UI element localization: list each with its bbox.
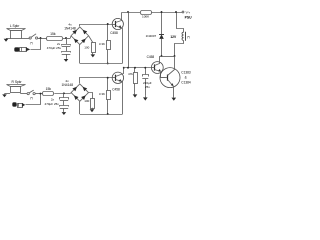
svg-text:12V: 12V xyxy=(170,35,177,39)
svg-text:25v: 25v xyxy=(145,85,150,89)
wire (rail feed down) xyxy=(128,12,130,68)
jack plug L input xyxy=(15,48,20,52)
wire (summing node to Q3 base) xyxy=(124,67,152,69)
svg-text:R Spkr: R Spkr xyxy=(12,80,23,84)
svg-text:2x: 2x xyxy=(51,97,55,101)
svg-text:(*): (*) xyxy=(30,41,33,45)
wire xyxy=(5,93,11,95)
ground xyxy=(66,57,68,60)
capacitors 2x 470µF 25v (R) xyxy=(63,93,65,98)
ground xyxy=(63,110,65,113)
svg-text:(*): (*) xyxy=(30,96,33,100)
resistor 100 (R) xyxy=(89,93,93,99)
resistor 15k (L) xyxy=(47,37,63,41)
svg-text:3.3K: 3.3K xyxy=(99,42,105,46)
svg-text:3.3K: 3.3K xyxy=(99,92,105,96)
wire xyxy=(35,93,43,95)
jack plug R input xyxy=(13,103,17,107)
svg-text:C458: C458 xyxy=(112,88,120,92)
relay coil 12V xyxy=(182,32,184,40)
switch (L channel) xyxy=(29,37,31,39)
ground xyxy=(134,83,136,93)
svg-text:1N4007: 1N4007 xyxy=(146,34,157,38)
svg-text:1N4148: 1N4148 xyxy=(62,83,74,87)
transistor Q2 C458 (R) xyxy=(112,72,123,83)
svg-text:470µF 25v: 470µF 25v xyxy=(45,102,60,106)
resistor 3.3K (R) xyxy=(107,91,111,100)
wire xyxy=(20,93,27,95)
svg-text:C458: C458 xyxy=(110,31,118,35)
wire (top rail) xyxy=(121,12,140,14)
svg-text:47k: 47k xyxy=(128,72,133,76)
svg-text:470µF 25v: 470µF 25v xyxy=(47,46,62,50)
ground xyxy=(173,95,175,97)
resistor 100K xyxy=(141,11,152,15)
terminal 'V'+ xyxy=(182,11,184,13)
svg-text:PSU: PSU xyxy=(185,16,193,20)
wire (bridge top to base) xyxy=(80,78,113,84)
capacitor 220µF 25v xyxy=(145,68,147,75)
svg-text:L Spkr: L Spkr xyxy=(10,24,20,28)
svg-text:'V'+: 'V'+ xyxy=(185,10,190,14)
wire (Q3 emitter to Q4 base) xyxy=(161,73,166,78)
svg-text:100K: 100K xyxy=(142,15,150,19)
transistor Q3 C458 (driver) xyxy=(151,62,163,74)
wire (bottom rail R) xyxy=(79,101,81,114)
wire (coil top to rail) xyxy=(177,13,184,33)
svg-text:15k: 15k xyxy=(50,32,56,36)
resistor 100 (L) xyxy=(89,36,93,43)
resistor 3.3K (L) xyxy=(107,41,111,50)
wire xyxy=(22,38,29,40)
wire xyxy=(63,38,70,40)
svg-text:15k: 15k xyxy=(46,87,52,91)
wire (bottom rail L) xyxy=(79,45,81,64)
resistor 47k xyxy=(134,68,136,73)
ground xyxy=(92,108,94,110)
diode D5 1N4007 xyxy=(161,12,163,34)
wire xyxy=(6,38,11,40)
wire xyxy=(26,95,41,105)
svg-text:(*): (*) xyxy=(187,35,190,39)
switch (R channel) xyxy=(27,93,29,95)
svg-text:C1384: C1384 xyxy=(181,81,191,85)
svg-text:&: & xyxy=(185,75,188,79)
wire xyxy=(38,38,47,40)
svg-text:1N4148: 1N4148 xyxy=(64,26,76,30)
ground xyxy=(6,37,8,40)
svg-text:100: 100 xyxy=(84,45,89,49)
wire xyxy=(54,93,70,95)
wire (coil bottom to collector node) xyxy=(175,41,184,57)
ground xyxy=(4,93,6,96)
ground xyxy=(92,53,94,55)
transistor Q1 C458 (L) xyxy=(112,18,123,29)
wire (relay drive node) xyxy=(159,56,174,58)
wire (bridge top to base) xyxy=(80,25,113,27)
capacitors 2x 470µF 25v (L) xyxy=(66,38,68,44)
ground xyxy=(145,95,147,97)
resistor 15k (R) xyxy=(43,92,54,96)
svg-text:C1383: C1383 xyxy=(181,70,191,74)
svg-text:C458: C458 xyxy=(147,55,155,59)
wire xyxy=(31,39,41,50)
transistor Q4 C1383/C1384 (output) xyxy=(160,68,180,88)
svg-text:100: 100 xyxy=(84,99,89,103)
